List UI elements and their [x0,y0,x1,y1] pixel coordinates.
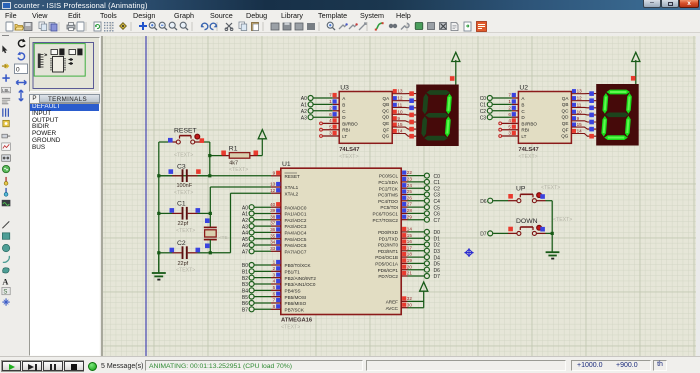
terminal B1 [249,269,254,274]
svg-text:PA6/ADC6: PA6/ADC6 [285,243,307,248]
junction buttons ground node [551,232,554,235]
svg-text:11: 11 [397,102,402,107]
decoder U2 74LS47 body [518,92,571,144]
svg-text:D7: D7 [480,232,487,238]
menu bar [0,10,700,20]
svg-text:B: B [521,102,524,107]
svg-text:QD: QD [562,115,570,120]
terminal B0 [249,263,254,268]
svg-text:D5: D5 [434,262,441,268]
U1 pin 13 XTAL1 [271,186,281,188]
power VCC arrow at AVCC [420,282,428,291]
svg-text:4: 4 [329,118,332,123]
U2 pin 7 A [512,97,519,99]
wire button UP to ground rail [536,200,545,202]
wire VCC to display DS1 [455,60,457,85]
resistor R1 [210,155,222,157]
terminal D1 [408,237,425,239]
svg-text:34: 34 [270,240,276,245]
terminal A3 [308,115,313,120]
svg-text:D3: D3 [434,249,441,255]
svg-text:PC5/TDI: PC5/TDI [380,205,398,210]
terminal C0 [487,96,492,101]
U1 pin 4 PB3/AIN1/OC0 [271,283,281,285]
svg-text:ATMEGA16: ATMEGA16 [281,318,313,324]
terminal C7 [408,219,425,221]
U1 pin 22 PC0/SCL [401,175,407,177]
terminal C1 [408,181,425,183]
power VCC arrow display DS2 [632,52,640,61]
junction C2 ground rail [157,251,160,254]
svg-text:6: 6 [329,112,332,117]
svg-text:PB4/SS: PB4/SS [285,288,301,293]
terminal A0 [308,96,313,101]
svg-text:PC0/SCL: PC0/SCL [379,174,399,179]
svg-text:0: 0 [16,67,20,74]
svg-text:3: 3 [508,131,511,136]
capacitor C3 [159,175,172,177]
svg-text:PD3/INT1: PD3/INT1 [378,249,399,254]
svg-text:30: 30 [407,302,413,307]
wire AREF/AVCC to VCC [408,300,424,302]
terminal A1 [308,102,313,107]
wire VCC to display DS2 [635,60,637,84]
U1 pin 39 PA1/ADC1 [271,213,281,215]
wire R1 right to VCC [250,155,258,157]
wire XTAL2 from U1 to crystal bottom [231,192,272,194]
svg-text:B4: B4 [242,289,248,295]
junction C3 on ground rail [157,174,160,177]
logic square C2 left (blue) [170,248,175,253]
U2 pin 5 RBI (unconnected) [501,129,518,131]
svg-text:22pf: 22pf [178,261,189,267]
U1 pin 38 PA2/ADC2 [271,219,281,221]
status bar [0,356,700,373]
svg-text:LBL: LBL [2,88,10,93]
svg-text:3: 3 [273,272,276,277]
svg-text:PB1/T1: PB1/T1 [285,269,301,274]
terminal A3 [249,224,254,229]
U3 pin 14 QG wire to display [392,134,416,137]
U2 pin 10 QD wire to display [571,113,596,116]
svg-text:12: 12 [397,96,403,101]
svg-text:A0: A0 [242,205,248,211]
svg-text:11: 11 [577,102,582,107]
svg-text:4k7: 4k7 [229,161,238,167]
svg-text:<TEXT>: <TEXT> [229,167,248,173]
terminal D7 [488,231,493,236]
U1 pin 40 PA0/ADC0 [271,206,281,208]
U2 pin 3 LT (unconnected) [501,135,518,137]
U1 pin 21 PD7/OC2 [401,275,407,277]
svg-text:<TEXT>: <TEXT> [174,190,193,196]
U1 pin 16 PD2/INT0 [401,244,407,246]
preview window [29,37,100,92]
svg-text:B5: B5 [242,295,248,301]
svg-text:AREF: AREF [386,300,398,305]
svg-text:<TE: <TE [219,235,228,240]
svg-text:B3: B3 [242,282,248,288]
grid background [103,36,700,356]
decoder U3 74LS47 body [339,92,392,144]
svg-text:35: 35 [270,233,276,238]
svg-text:39: 39 [270,208,276,213]
terminal A1 [249,211,254,216]
button UP actuator [537,193,542,198]
svg-text:QA: QA [383,96,391,101]
node junction reset/C3 [208,174,211,177]
U1 pin 7 PB6/MISO [271,302,281,304]
svg-text:QE: QE [383,121,390,126]
svg-text:2: 2 [273,266,276,271]
logic square C3 left (blue) [169,169,174,174]
svg-text:9: 9 [397,116,400,121]
svg-text:6: 6 [508,112,511,117]
microcontroller U1 ATMEGA16 body [281,168,401,314]
U1 pin 35 PA5/ADC5 [271,238,281,240]
svg-text:LT: LT [521,134,526,139]
svg-text:C7: C7 [434,218,441,224]
U3 pin 13 QA wire to display [392,93,416,95]
svg-text:4: 4 [508,118,511,123]
logic square R1 right (red) [254,151,259,156]
svg-text:16: 16 [407,239,413,244]
U2 pin 2 C [512,110,519,112]
svg-text:5: 5 [273,285,276,290]
svg-text:LT: LT [342,134,347,139]
svg-text:C3: C3 [480,115,487,121]
svg-text:D6: D6 [480,199,487,205]
svg-text:10: 10 [397,109,403,114]
U3 pin 6 D [333,116,340,118]
svg-text:U2: U2 [519,84,528,91]
button DOWN actuator [537,225,542,230]
svg-text:C6: C6 [434,212,441,218]
svg-text:33: 33 [270,246,276,251]
logic square UP left (red) [508,194,513,199]
wire D7 to button DOWN [493,232,508,234]
power VCC arrow display DS1 [452,52,460,61]
svg-text:A4: A4 [242,231,248,237]
logic square C3 right (red) [196,169,201,174]
U1 pin 19 PD5/OC1A [401,262,407,264]
U1 pin 9 RESET [271,175,281,177]
svg-text:PD0/RXD: PD0/RXD [378,230,399,235]
U3 pin 1 B [333,103,340,105]
svg-text:1: 1 [508,99,511,104]
terminal D7 [408,275,425,277]
7-segment display DS2 showing 0 [596,84,639,146]
terminal D2 [408,244,425,246]
svg-text:QE: QE [562,121,569,126]
svg-text:C1: C1 [177,201,186,208]
svg-text:38: 38 [270,214,276,219]
wire down to ground [551,233,553,251]
svg-text:B1: B1 [242,270,248,276]
terminal C1 [487,102,492,107]
wire button DOWN to ground rail [536,232,545,234]
origin marker [464,248,473,257]
svg-text:PD2/INT0: PD2/INT0 [378,243,399,248]
svg-text:D2: D2 [434,243,441,249]
terminal A4 [249,230,254,235]
svg-text:9: 9 [273,170,276,175]
logic square R1 left (red) [221,151,226,156]
svg-text:PA1/ADC1: PA1/ADC1 [285,212,307,217]
7-segment display DS1 showing 1 [416,85,459,147]
svg-text:<TEXT>: <TEXT> [176,267,195,273]
svg-text:PB7/SCK: PB7/SCK [285,307,305,312]
svg-text:PC4/TDO: PC4/TDO [378,199,398,204]
terminal A2 [308,108,313,113]
U2 pin 11 QC wire to display [571,106,596,108]
svg-text:D7: D7 [434,274,441,280]
svg-text:C1: C1 [480,103,487,109]
U1 pin 2 PB1/T1 [271,270,281,272]
toolbar [0,20,700,33]
U1 pin 8 PB7/SCK [271,308,281,310]
svg-text:S: S [3,290,7,296]
svg-text:1: 1 [329,99,332,104]
svg-text:4: 4 [273,279,276,284]
svg-text:PA2/ADC2: PA2/ADC2 [285,218,307,223]
terminal D6 [488,198,493,203]
U1 pin 36 PA4/ADC4 [271,231,281,233]
svg-text:<TEXT>: <TEXT> [518,154,537,160]
logic square display DS1 supply (red) [450,76,455,81]
U1 pin 5 PB4/SS [271,289,281,291]
svg-text:PC1/SDA: PC1/SDA [378,180,399,185]
terminal C5 [408,206,425,208]
terminal B5 [249,294,254,299]
svg-text:U3: U3 [340,84,349,91]
svg-text:BI/RBO: BI/RBO [521,121,537,126]
terminal C6 [408,212,425,214]
U3 pin 10 QD wire to display [392,113,416,116]
svg-text:8: 8 [273,304,276,309]
svg-text:PB6/MISO: PB6/MISO [285,301,307,306]
U1 pin 28 PC6/TOSC1 [401,212,407,214]
U1 pin 24 PC2/TCK [401,187,407,189]
capacitor C1 [159,212,172,214]
logic square display DS2 supply (red) [631,76,636,81]
svg-text:6: 6 [273,291,276,296]
U1 pin 15 PD1/TXD [401,237,407,239]
crystal X1 [209,213,211,227]
svg-text:12: 12 [577,96,583,101]
terminal A2 [249,217,254,222]
junction C2 crystal node [209,251,212,254]
U1 pin 27 PC5/TDI [401,206,407,208]
logic square RESET right (red) [200,138,205,143]
svg-text:C0: C0 [434,174,441,180]
svg-text:7: 7 [508,93,511,98]
svg-text:PB3/AIN1/OC0: PB3/AIN1/OC0 [285,282,316,287]
svg-text:22pf: 22pf [178,221,189,227]
U2 pin 4 BI/RBO (unconnected) [501,122,518,124]
svg-text:U1: U1 [282,161,291,168]
logic square C1 right (blue) [196,208,201,213]
terminal D6 [408,269,425,271]
svg-text:C2: C2 [177,240,186,247]
svg-text:XTAL1: XTAL1 [285,185,299,190]
svg-text:27: 27 [407,202,413,207]
terminal B7 [249,307,254,312]
terminal D3 [408,250,425,252]
svg-text:100nF: 100nF [177,183,193,189]
terminal B4 [249,288,254,293]
svg-text:7: 7 [329,93,332,98]
svg-text:BI/RBO: BI/RBO [342,121,358,126]
svg-text:36: 36 [270,227,276,232]
terminal A0 [249,205,254,210]
svg-text:A: A [2,277,8,286]
svg-text:5: 5 [329,124,332,129]
svg-text:PD6/ICP1: PD6/ICP1 [378,268,399,273]
svg-text:PC3/TMS: PC3/TMS [378,193,398,198]
logic square DOWN left (red) [508,227,513,232]
svg-text:7: 7 [273,298,276,303]
svg-text:<TEXT>: <TEXT> [281,325,300,331]
U3 pin 9 QE wire to display [392,121,416,122]
svg-text:2: 2 [329,105,332,110]
svg-text:RESET: RESET [174,128,197,135]
wire buttons common vertical [551,201,553,234]
terminal C3 [408,194,425,196]
U3 pin 5 RBI (unconnected) [322,129,339,131]
svg-text:A7: A7 [242,250,248,256]
terminal D5 [408,262,425,264]
svg-text:13: 13 [270,182,276,187]
svg-text:PD7/OC2: PD7/OC2 [378,274,398,279]
svg-text:XTAL2: XTAL2 [285,191,299,196]
svg-text:C5: C5 [434,205,441,211]
svg-text:20: 20 [407,264,413,269]
svg-text:A1: A1 [301,103,307,109]
svg-text:37: 37 [270,221,276,226]
terminal C2 [487,108,492,113]
capacitor C2 [159,252,172,254]
terminal C3 [487,115,492,120]
object selector header [29,94,100,103]
terminal C2 [408,187,425,189]
logic square DOWN right (blue) [540,227,545,232]
svg-text:PB2/AIN0/INT2: PB2/AIN0/INT2 [285,276,317,281]
svg-text:14: 14 [397,129,403,134]
svg-text:C2: C2 [480,109,487,115]
U3 pin 2 C [333,110,340,112]
svg-text:14: 14 [577,129,583,134]
svg-text:DOWN: DOWN [516,218,538,225]
terminal D0 [408,231,425,233]
svg-text:QF: QF [562,127,569,132]
terminal A5 [249,236,254,241]
svg-text:A1: A1 [242,212,248,218]
U1 pin 33 PA7/ADC7 [271,250,281,252]
svg-text:RESET: RESET [285,174,301,179]
svg-text:PD4/OC1B: PD4/OC1B [375,255,398,260]
svg-text:19: 19 [407,258,413,263]
wire - reset node vertical [209,142,211,176]
U3 pin 12 QB wire to display [392,100,416,102]
U1 pin 14 PD0/RXD [401,231,407,233]
svg-text:C2: C2 [434,186,441,192]
svg-text:15: 15 [577,122,583,127]
svg-text:PA5/ADC5: PA5/ADC5 [285,237,307,242]
push button RESET [159,141,168,143]
svg-text:23: 23 [407,177,413,182]
svg-text:15: 15 [397,122,403,127]
svg-text:A3: A3 [301,115,307,121]
svg-text:B6: B6 [242,301,248,307]
svg-text:A5: A5 [242,237,248,243]
svg-text:74LS47: 74LS47 [339,147,359,153]
svg-text:A6: A6 [242,243,248,249]
svg-text:21: 21 [407,271,413,276]
svg-text:QD: QD [382,115,390,120]
svg-text:UP: UP [516,186,526,193]
title bar [0,0,700,10]
svg-text:10: 10 [577,109,583,114]
U1 pin 1 PB0/T0/XCK [271,264,281,266]
U3 pin 3 LT (unconnected) [322,135,339,137]
svg-text:QG: QG [382,134,390,139]
U2 pin 9 QE wire to display [571,121,596,122]
svg-text:B0: B0 [242,263,248,269]
svg-text:5: 5 [508,124,511,129]
U1 pin 12 XTAL2 [271,192,281,194]
ground symbol right [546,251,560,253]
U1 pin 6 PB5/MOSI [271,296,281,298]
svg-text:28: 28 [407,208,413,213]
svg-text:A2: A2 [242,218,248,224]
terminal A6 [249,243,254,248]
svg-text:D1: D1 [434,236,441,242]
power VCC arrow at R1 [258,130,266,139]
ground symbol left [158,253,160,273]
svg-text:32: 32 [407,296,413,301]
svg-text:12: 12 [270,188,276,193]
svg-text:PC6/TOSC1: PC6/TOSC1 [373,212,399,217]
node junction at R1 tap [208,154,211,157]
logic square crystal bottom (blue) [205,244,210,249]
svg-text:<TEXT>: <TEXT> [553,217,572,223]
svg-text:D6: D6 [434,268,441,274]
svg-text:18: 18 [407,252,413,257]
U3 pin 7 A [333,97,340,99]
svg-text:PD5/OC1A: PD5/OC1A [375,262,399,267]
U1 pin 3 PB2/AIN0/INT2 [271,277,281,279]
svg-text:R1: R1 [229,146,238,153]
logic square C1 left (blue) [170,208,175,213]
U1 pin 34 PA6/ADC6 [271,244,281,246]
svg-text:B7: B7 [242,308,248,314]
svg-text:2: 2 [508,105,511,110]
U1 pin 30 AVCC [401,307,407,309]
svg-text:QG: QG [561,134,569,139]
svg-text:<TEXT>: <TEXT> [339,154,358,160]
svg-text:15: 15 [407,233,413,238]
svg-text:PC2/TCK: PC2/TCK [379,186,399,191]
U1 pin 26 PC4/TDO [401,200,407,202]
svg-text:C3: C3 [434,193,441,199]
svg-text:RBI: RBI [342,128,350,133]
U1 pin 17 PD3/INT1 [401,250,407,252]
svg-text:RBI: RBI [521,128,529,133]
push button DOWN [517,231,521,235]
U2 pin 6 D [512,116,519,118]
svg-text:PA7/ADC7: PA7/ADC7 [285,249,307,254]
